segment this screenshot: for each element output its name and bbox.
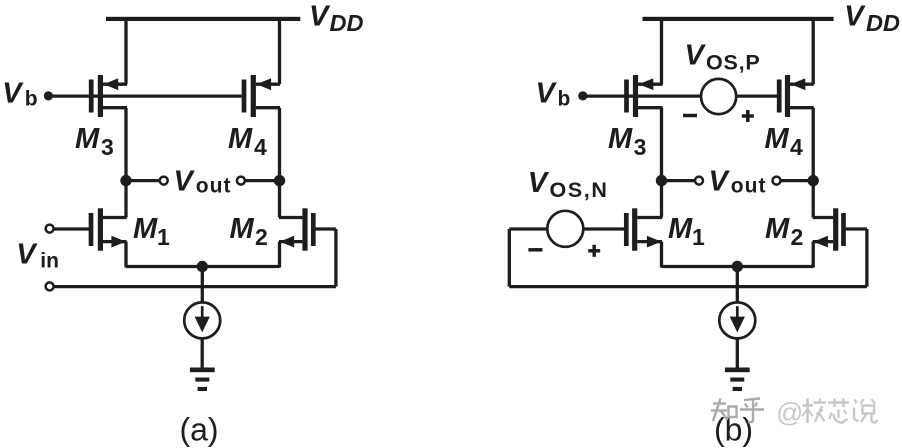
svg-text:out: out	[731, 175, 767, 198]
svg-text:2: 2	[255, 224, 268, 250]
svg-text:3: 3	[634, 134, 647, 160]
svg-text:OS,N: OS,N	[550, 178, 609, 202]
svg-text:M: M	[608, 123, 633, 155]
svg-text:1: 1	[157, 224, 170, 250]
svg-text:4: 4	[790, 134, 803, 160]
svg-text:M: M	[228, 123, 253, 155]
svg-text:V: V	[309, 0, 331, 32]
svg-text:V: V	[536, 78, 558, 110]
svg-text:V: V	[844, 0, 866, 32]
svg-text:V: V	[528, 167, 550, 199]
svg-text:M: M	[668, 213, 693, 245]
svg-text:M: M	[75, 123, 100, 155]
svg-text:4: 4	[254, 134, 267, 160]
svg-text:b: b	[25, 88, 38, 111]
svg-text:M: M	[133, 213, 158, 245]
svg-text:out: out	[196, 175, 232, 198]
svg-text:@: @	[776, 398, 803, 428]
svg-text:DD: DD	[866, 10, 900, 36]
svg-text:M: M	[230, 213, 255, 245]
svg-text:M: M	[765, 213, 790, 245]
svg-text:in: in	[40, 249, 59, 272]
svg-text:2: 2	[791, 224, 804, 250]
svg-text:(a): (a)	[179, 412, 218, 448]
svg-text:1: 1	[692, 224, 705, 250]
svg-text:V: V	[16, 239, 38, 271]
svg-text:DD: DD	[330, 10, 364, 36]
svg-text:V: V	[174, 165, 196, 197]
svg-text:V: V	[685, 39, 707, 71]
svg-text:3: 3	[101, 134, 114, 160]
svg-text:M: M	[765, 123, 790, 155]
svg-text:OS,P: OS,P	[706, 51, 761, 75]
svg-text:V: V	[2, 78, 24, 110]
svg-text:b: b	[558, 88, 571, 111]
svg-text:V: V	[709, 165, 731, 197]
